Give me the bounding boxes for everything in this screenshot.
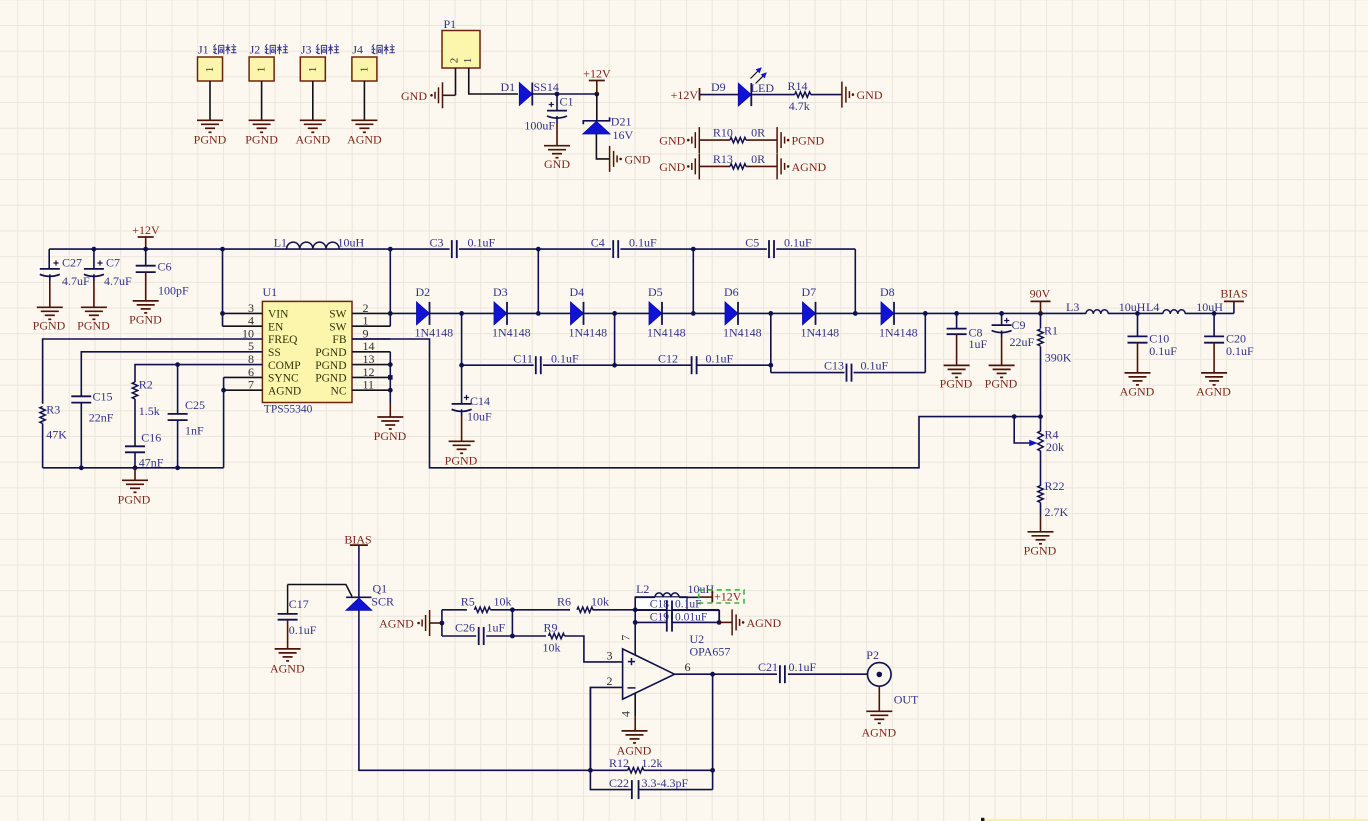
svg-text:1: 1	[204, 67, 216, 73]
svg-text:0.1uF: 0.1uF	[675, 599, 702, 611]
node AGND pin	[221, 388, 226, 393]
connector J4 (铜柱 standoff)	[352, 57, 377, 81]
svg-text:R6: R6	[557, 595, 571, 609]
power port PGND (C27)	[37, 306, 63, 308]
capacitor C19 0.01uF	[666, 613, 668, 631]
svg-text:+12V: +12V	[714, 590, 742, 604]
svg-text:1: 1	[358, 67, 370, 73]
wire compensation bus	[43, 467, 224, 469]
wire SW bus	[389, 249, 391, 326]
node decoupling gnd	[717, 620, 722, 625]
node input gnd	[440, 621, 445, 626]
U1 pin stub (right)	[352, 389, 390, 391]
svg-text:BIAS: BIAS	[1220, 287, 1247, 301]
svg-text:R9: R9	[544, 621, 558, 635]
selection box +12V	[699, 590, 744, 603]
wire C11 row	[462, 364, 534, 366]
capacitor C25 1nF	[177, 365, 179, 414]
svg-text:C21: C21	[758, 660, 778, 674]
svg-text:3.3-4.3pF: 3.3-4.3pF	[642, 776, 689, 790]
capacitor C6 100pF	[145, 249, 147, 266]
node C1 junction	[555, 92, 560, 97]
svg-text:1N4148: 1N4148	[492, 326, 531, 340]
svg-text:PGND: PGND	[374, 429, 407, 443]
wire U2 pin2 (inverting)	[590, 687, 622, 770]
wire rail drop (C5 end)	[854, 249, 856, 313]
capacitor C5 0.1uF	[768, 240, 770, 258]
svg-text:C9: C9	[1012, 318, 1026, 332]
capacitor C3 0.1uF	[451, 240, 453, 258]
node C8	[954, 311, 959, 316]
capacitor C4 0.1uF	[612, 240, 614, 258]
svg-text:C13: C13	[824, 359, 844, 373]
wire D1 to +12V node	[532, 93, 597, 95]
svg-text:GND: GND	[659, 160, 685, 174]
node C15 bus	[79, 465, 84, 470]
svg-text:PGND: PGND	[445, 453, 478, 467]
svg-text:0.1uF: 0.1uF	[784, 235, 812, 249]
wire D9 to R14	[751, 94, 795, 96]
wire J3 pin to ground	[312, 81, 314, 120]
power port PGND (C6)	[133, 300, 159, 302]
wire J2 pin to ground	[261, 81, 263, 120]
diode D5 1N4148	[649, 302, 662, 325]
svg-text:1N4148: 1N4148	[801, 326, 840, 340]
svg-text:1: 1	[307, 67, 319, 73]
node R1 top	[1038, 311, 1043, 316]
node pin11	[388, 388, 393, 393]
svg-text:4.7uF: 4.7uF	[62, 274, 90, 288]
svg-text:R10: R10	[713, 126, 733, 140]
svg-text:C15: C15	[93, 390, 113, 404]
svg-text:47K: 47K	[46, 428, 67, 442]
node C25 junction	[175, 362, 180, 367]
wire rail drop (C4/C5)	[692, 249, 694, 313]
diode D7 1N4148	[803, 302, 816, 325]
svg-text:J2: J2	[250, 43, 261, 57]
wire Q1 cathode	[359, 610, 591, 770]
node after D8	[923, 311, 928, 316]
capacitor C1 100uF	[556, 94, 558, 111]
svg-text:20k: 20k	[1046, 440, 1064, 454]
svg-text:2: 2	[607, 674, 613, 688]
text frame (C18)	[635, 597, 687, 611]
wire Q1 gate	[288, 585, 352, 597]
svg-text:1N4148: 1N4148	[415, 326, 454, 340]
capacitor C27 4.7uF	[48, 249, 50, 269]
wire R14 to GND	[811, 94, 842, 96]
capacitor C11 0.1uF	[535, 356, 537, 374]
node feedback right	[710, 768, 715, 773]
svg-text:0.1uF: 0.1uF	[706, 352, 734, 366]
svg-text:C14: C14	[470, 394, 490, 408]
svg-text:LED: LED	[751, 81, 775, 95]
svg-text:PGND: PGND	[315, 347, 346, 359]
svg-text:1.2k: 1.2k	[642, 756, 663, 770]
IC U1 TPS55340	[262, 301, 352, 402]
connector P1	[442, 31, 480, 69]
node C7 junction	[92, 247, 97, 252]
wire D4 drop	[614, 313, 616, 365]
capacitor C8 1uF	[956, 313, 958, 328]
svg-text:3: 3	[607, 648, 613, 662]
svg-text:22nF: 22nF	[89, 411, 114, 425]
inductor L2 10uH	[655, 593, 679, 597]
wire GND to R10	[699, 139, 730, 141]
resistor R6 10k	[577, 607, 593, 612]
wire D2 drop	[461, 313, 463, 404]
capacitor C9 22uF	[1001, 313, 1003, 325]
svg-text:1N4148: 1N4148	[723, 326, 762, 340]
power port AGND (J3)	[300, 119, 326, 121]
wire rail drop (C3/C4)	[537, 249, 539, 313]
node SW junction (rail)	[388, 247, 393, 252]
node SW diode junction	[388, 311, 393, 316]
op-amp U2 OPA657	[623, 649, 675, 699]
wire main +12V rail	[49, 248, 449, 250]
capacitor C7 4.7uF	[93, 249, 95, 269]
svg-text:OUT: OUT	[894, 693, 919, 707]
node pin13	[388, 362, 393, 367]
wire output to C21	[713, 673, 777, 675]
svg-text:AGND: AGND	[1120, 384, 1155, 398]
svg-text:1.5k: 1.5k	[139, 404, 160, 418]
connector P2	[868, 663, 892, 687]
node C9	[999, 311, 1004, 316]
LED D9	[738, 83, 751, 106]
svg-text:0.1uF: 0.1uF	[861, 359, 889, 373]
resistor R22 2.7K	[1038, 486, 1043, 503]
node C6 junction	[143, 247, 148, 252]
wire R9 row	[512, 635, 546, 637]
svg-text:90V: 90V	[1030, 287, 1051, 301]
svg-text:+12V: +12V	[132, 223, 160, 237]
svg-text:10uH: 10uH	[1196, 300, 1223, 314]
wire R5-C26 riser	[511, 610, 513, 636]
wire R13 to AGND	[746, 165, 777, 167]
wire GND to R13	[699, 165, 730, 167]
svg-text:OPA657: OPA657	[690, 645, 731, 659]
svg-text:GND: GND	[659, 134, 685, 148]
svg-text:PGND: PGND	[129, 313, 162, 327]
svg-text:C7: C7	[106, 256, 120, 270]
wire PGND pins bus	[389, 352, 391, 404]
svg-text:R5: R5	[461, 595, 475, 609]
power port PGND (J1)	[197, 119, 223, 121]
label 铜柱 (J4)	[371, 44, 382, 54]
capacitor C13 0.1uF	[846, 364, 848, 382]
resistor R9 10k	[549, 633, 565, 638]
svg-text:GND: GND	[857, 88, 883, 102]
node C3-C4 junction	[536, 247, 541, 252]
svg-text:100pF: 100pF	[158, 284, 189, 298]
capacitor C10 0.1uF	[1137, 313, 1139, 336]
svg-text:FB: FB	[332, 334, 346, 346]
svg-text:1N4148: 1N4148	[879, 326, 918, 340]
capacitor C26 1uF	[478, 627, 480, 645]
svg-text:10k: 10k	[494, 595, 512, 609]
svg-text:0.1uF: 0.1uF	[551, 352, 579, 366]
node C26/R9	[510, 634, 515, 639]
wire R6 row	[512, 609, 570, 611]
svg-text:C11: C11	[513, 352, 533, 366]
svg-text:J1: J1	[198, 43, 209, 57]
svg-text:16V: 16V	[613, 128, 634, 142]
svg-text:0.1uF: 0.1uF	[1149, 344, 1177, 358]
svg-text:AGND: AGND	[379, 616, 414, 630]
svg-text:J3: J3	[301, 43, 312, 57]
LED arrows	[751, 68, 762, 79]
node C5 drop	[853, 311, 858, 316]
svg-text:D21: D21	[611, 115, 632, 129]
svg-text:AGND: AGND	[1196, 384, 1231, 398]
svg-text:1uF: 1uF	[487, 621, 506, 635]
svg-text:C16: C16	[141, 430, 161, 444]
node C4/C5 drop	[691, 311, 696, 316]
svg-text:R12: R12	[609, 756, 629, 770]
svg-text:AGND: AGND	[295, 133, 330, 147]
svg-text:L4: L4	[1146, 300, 1159, 314]
label 铜柱 (J3)	[316, 44, 327, 54]
connector J3 (铜柱 standoff)	[300, 57, 325, 81]
svg-text:L3: L3	[1066, 300, 1079, 314]
wire SYNC/AGND drop to bus	[223, 377, 225, 467]
svg-text:+12V: +12V	[583, 67, 611, 81]
svg-text:C12: C12	[658, 352, 678, 366]
power port AGND (C10)	[1125, 372, 1151, 374]
svg-text:1: 1	[462, 58, 474, 64]
svg-text:FREQ: FREQ	[268, 334, 298, 346]
svg-text:100uF: 100uF	[524, 119, 555, 133]
svg-text:PGND: PGND	[1024, 544, 1057, 558]
svg-text:AGND: AGND	[270, 662, 305, 676]
resistor R3 47K	[40, 407, 45, 424]
node C25 bus	[175, 465, 180, 470]
power port GND (C1)	[544, 145, 570, 147]
svg-text:PGND: PGND	[940, 376, 973, 390]
power port +12V (op-amp)	[700, 596, 712, 598]
svg-text:2.7K: 2.7K	[1045, 505, 1069, 519]
svg-text:2: 2	[449, 58, 461, 64]
text frame (C19 value)	[672, 611, 720, 623]
connector J1 (铜柱 standoff)	[198, 57, 223, 81]
wire C26 row	[442, 635, 476, 637]
wire R5 row	[442, 609, 467, 611]
resistor R12 1.2k	[590, 769, 627, 771]
svg-text:C26: C26	[455, 621, 475, 635]
svg-text:C17: C17	[289, 597, 309, 611]
svg-text:D8: D8	[880, 285, 895, 299]
svg-text:L1: L1	[274, 235, 287, 249]
resistor R5 10k	[474, 607, 490, 612]
svg-text:PGND: PGND	[792, 134, 825, 148]
svg-text:1nF: 1nF	[185, 424, 204, 438]
svg-text:D4: D4	[570, 285, 585, 299]
svg-text:1N4148: 1N4148	[569, 326, 608, 340]
resistor R10 0R	[730, 137, 746, 142]
node output	[710, 672, 715, 677]
svg-text:AGND: AGND	[268, 385, 301, 397]
resistor R2 1.5k	[132, 382, 137, 399]
svg-text:Q1: Q1	[373, 582, 388, 596]
wire J1 pin to ground	[209, 81, 211, 120]
node VIN junction	[220, 247, 225, 252]
capacitor C16 47nF	[125, 445, 145, 447]
U1 pin stub (right)	[352, 338, 390, 340]
wire P1 pin2	[455, 68, 457, 95]
svg-text:4: 4	[618, 711, 632, 717]
svg-text:GND: GND	[625, 152, 651, 166]
svg-text:SCR: SCR	[371, 595, 394, 609]
wire AGND pin	[224, 389, 263, 391]
svg-text:SYNC: SYNC	[268, 373, 299, 385]
svg-text:D3: D3	[493, 285, 508, 299]
wire +12V to D9	[700, 94, 739, 96]
node feedback	[588, 768, 593, 773]
svg-text:PGND: PGND	[985, 376, 1018, 390]
svg-text:4.7k: 4.7k	[789, 99, 810, 113]
svg-text:D5: D5	[648, 285, 663, 299]
node after D2	[459, 311, 464, 316]
svg-text:SW: SW	[329, 321, 346, 333]
wire R2 to C16	[134, 399, 136, 446]
node C12 row	[612, 363, 617, 368]
wire supply riser	[634, 597, 636, 655]
wire SYNC	[224, 376, 263, 378]
svg-text:PGND: PGND	[77, 319, 110, 333]
svg-text:390K: 390K	[1045, 351, 1072, 365]
svg-text:0.1uF: 0.1uF	[789, 660, 817, 674]
wire BIAS to Q1	[358, 545, 360, 597]
svg-text:0R: 0R	[751, 126, 765, 140]
svg-text:4.7uF: 4.7uF	[104, 274, 132, 288]
U1 pin stub (right)	[352, 312, 390, 314]
diode D1 SS14	[519, 83, 532, 106]
svg-text:10k: 10k	[591, 595, 609, 609]
svg-text:P2: P2	[866, 648, 879, 662]
wire C18/C19 to AGND	[718, 610, 720, 623]
power port PGND (R10)	[776, 127, 778, 153]
svg-text:C25: C25	[185, 398, 205, 412]
node R1 bottom	[1038, 414, 1043, 419]
svg-text:10uF: 10uF	[467, 410, 492, 424]
node R4 wiper tap	[1012, 414, 1017, 419]
node C13 row	[768, 363, 773, 368]
node C3/C4 drop	[536, 311, 541, 316]
svg-text:+12V: +12V	[671, 88, 699, 102]
svg-text:R2: R2	[139, 378, 153, 392]
svg-text:0.1uF: 0.1uF	[629, 235, 657, 249]
svg-text:COMP: COMP	[268, 360, 301, 372]
svg-text:GND: GND	[401, 89, 427, 103]
wire diode chain	[390, 312, 1040, 314]
capacitor C14 10uF	[452, 403, 472, 405]
svg-text:10uH: 10uH	[338, 235, 365, 249]
svg-text:AGND: AGND	[747, 616, 782, 630]
power port AGND (C17)	[275, 648, 301, 650]
wire +12V drop (VIN/EN)	[222, 249, 224, 326]
node D21 junction	[594, 92, 599, 97]
node C16 bus	[133, 465, 138, 470]
wire PGND stem	[389, 404, 391, 418]
svg-text:0.1uF: 0.1uF	[1226, 344, 1254, 358]
capacitor C22 3.3-4.3pF	[590, 687, 632, 789]
wire C13 row	[771, 372, 845, 374]
svg-text:C19: C19	[650, 611, 669, 623]
svg-text:AGND: AGND	[347, 133, 382, 147]
node supply riser C18	[633, 607, 638, 612]
wire input gnd riser	[441, 610, 443, 636]
svg-text:PGND: PGND	[33, 319, 66, 333]
power port PGND (R22)	[1028, 531, 1054, 533]
svg-text:10k: 10k	[543, 641, 561, 655]
svg-text:C18: C18	[650, 599, 669, 611]
svg-text:7: 7	[618, 635, 632, 641]
inductor L3 10uH	[1041, 312, 1086, 314]
svg-text:TPS55340: TPS55340	[264, 404, 313, 416]
node C4-C5 junction	[691, 247, 696, 252]
svg-text:R3: R3	[46, 403, 60, 417]
label 铜柱 (J1)	[213, 44, 224, 54]
svg-text:D2: D2	[416, 285, 431, 299]
power port PGND (C14)	[449, 440, 475, 442]
svg-text:R14: R14	[788, 79, 808, 93]
node pin12	[388, 375, 393, 380]
node R5/R6	[510, 607, 515, 612]
power port AGND (P2)	[866, 710, 892, 712]
power port PGND (C8)	[944, 364, 970, 366]
svg-text:C3: C3	[430, 235, 444, 249]
wire output feedback drop	[712, 674, 714, 789]
wire U2 pin4 to AGND	[634, 693, 636, 717]
node VIN	[220, 311, 225, 316]
svg-text:VIN: VIN	[268, 309, 289, 321]
svg-text:C4: C4	[591, 235, 605, 249]
wire R10 to PGND	[746, 139, 777, 141]
capacitor C15 22nF	[71, 395, 91, 397]
node C20	[1212, 311, 1217, 316]
svg-text:SS14: SS14	[534, 80, 559, 94]
power port PGND (U1)	[377, 416, 403, 418]
svg-text:GND: GND	[544, 157, 570, 171]
connector J2 (铜柱 standoff)	[249, 57, 274, 81]
power port BIAS (top)	[1233, 301, 1235, 313]
svg-text:EN: EN	[268, 321, 284, 333]
wire EN	[223, 325, 263, 327]
resistor R14 4.7k	[795, 92, 811, 97]
svg-text:U1: U1	[263, 285, 278, 299]
wire R4 to R22	[1040, 451, 1042, 487]
U1 pin stub (right)	[352, 376, 390, 378]
capacitor C18 0.1uF	[666, 601, 668, 620]
svg-text:AGND: AGND	[861, 726, 896, 740]
capacitor C20 0.1uF	[1213, 313, 1215, 336]
power port PGND (C7)	[81, 306, 107, 308]
wire C12 row	[615, 364, 692, 366]
svg-text:NC: NC	[331, 385, 347, 397]
U1 pin stub (right)	[352, 364, 390, 366]
node C10	[1135, 311, 1140, 316]
svg-text:L2: L2	[636, 582, 649, 596]
svg-text:D6: D6	[724, 285, 739, 299]
power port AGND (R13)	[776, 153, 778, 179]
svg-text:0.1uF: 0.1uF	[289, 623, 317, 637]
wire SS to C15	[81, 352, 262, 397]
power port GND (R14)	[841, 82, 843, 108]
wire COMP to R2	[135, 365, 262, 382]
svg-text:SS: SS	[268, 347, 281, 359]
zener diode D21 16V	[596, 94, 598, 121]
